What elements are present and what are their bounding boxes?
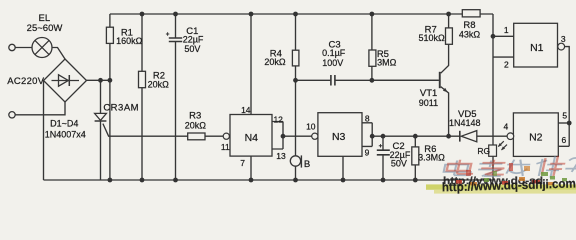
pin bubble N4 pin11 bbox=[223, 133, 229, 139]
svg-text:RG: RG bbox=[477, 146, 490, 156]
wire VD5 to N2 pin4 bbox=[477, 135, 507, 137]
junction R6 top bbox=[413, 134, 418, 139]
junction N4 pin7 bottom rail bbox=[249, 178, 254, 183]
capacitor C3 bbox=[331, 75, 335, 86]
resistor R5 bbox=[369, 50, 376, 66]
wire bottom rail bbox=[44, 179, 494, 181]
resistor R7 bbox=[446, 28, 453, 44]
transistor VT1 bbox=[439, 72, 448, 92]
wire lamp to bridge top vertex bbox=[52, 48, 65, 60]
bridge rectifier D1-D4 bbox=[44, 59, 87, 102]
svg-text:N2: N2 bbox=[529, 131, 543, 143]
svg-text:50V: 50V bbox=[184, 44, 200, 54]
wire N3 bottom pin bbox=[342, 156, 344, 180]
svg-text:9: 9 bbox=[365, 147, 370, 157]
svg-text:50V: 50V bbox=[391, 158, 407, 168]
junction C1 top rail bbox=[173, 12, 178, 17]
svg-text:9011: 9011 bbox=[419, 98, 438, 108]
photoresistor RG bbox=[489, 141, 507, 156]
wire N1 pin1 bbox=[493, 35, 515, 37]
wire R6 column bbox=[414, 136, 416, 180]
svg-text:14: 14 bbox=[241, 105, 251, 115]
wire top rail bbox=[110, 13, 493, 15]
resistor R2 bbox=[139, 71, 146, 87]
svg-text:5: 5 bbox=[562, 111, 567, 121]
thyristor CR3AM bbox=[95, 113, 107, 121]
terminal AC top bbox=[9, 44, 15, 50]
junction VT1 emitter node bbox=[446, 134, 451, 139]
svg-text:160kΩ: 160kΩ bbox=[116, 36, 143, 46]
svg-text:B: B bbox=[304, 159, 310, 170]
wire N4 pin7 bbox=[250, 156, 252, 180]
svg-text:20kΩ: 20kΩ bbox=[185, 121, 207, 131]
junction C2 top bbox=[381, 134, 386, 139]
svg-text:7: 7 bbox=[240, 158, 245, 168]
wire VT1 emitter down bbox=[441, 87, 449, 137]
junction R5 top rail bbox=[370, 12, 375, 17]
svg-text:4: 4 bbox=[504, 122, 509, 132]
svg-text:1: 1 bbox=[504, 25, 509, 35]
wire AC top terminal to lamp bbox=[15, 47, 32, 49]
wire VT1 collector to R7 bbox=[441, 14, 449, 73]
wire N1 input column bbox=[492, 14, 494, 180]
IC gate N3 bbox=[318, 113, 362, 157]
svg-text:1N4007x4: 1N4007x4 bbox=[45, 130, 86, 140]
svg-text:20kΩ: 20kΩ bbox=[264, 57, 286, 67]
wire R1 column bbox=[109, 14, 111, 180]
wire R4 B column bbox=[295, 14, 297, 180]
capacitor C1 bbox=[166, 32, 182, 41]
resistor R8 bbox=[462, 10, 480, 17]
svg-text:3: 3 bbox=[561, 34, 566, 44]
svg-text:25~60W: 25~60W bbox=[27, 23, 63, 34]
junction R1 bottom rail bbox=[108, 178, 113, 183]
junction R2 top rail bbox=[140, 12, 145, 17]
svg-text:2: 2 bbox=[504, 59, 509, 69]
junction C1 bottom rail bbox=[173, 178, 178, 183]
IC gate N2 bbox=[513, 113, 558, 156]
wire bridge right vertex to R1 column bbox=[87, 79, 110, 81]
svg-text:1N4148: 1N4148 bbox=[449, 118, 481, 128]
junction N4 pins 12 13 bbox=[281, 134, 286, 139]
wire N1 pin3 to N2 pins 5 6 bbox=[565, 47, 570, 147]
svg-text:N3: N3 bbox=[332, 131, 346, 143]
wire N4 pins 12 13 tie bracket bbox=[272, 122, 283, 150]
wire N3 pins 8 9 tie bracket bbox=[362, 123, 372, 147]
junction R6 bottom rail bbox=[413, 178, 418, 183]
svg-text:6: 6 bbox=[562, 135, 567, 145]
svg-text:N1: N1 bbox=[530, 42, 544, 54]
svg-text:N4: N4 bbox=[245, 132, 259, 144]
wire N4 output to N3 pin10 bbox=[283, 135, 312, 137]
junction R1 bridge output bbox=[108, 78, 113, 83]
IC gate N1 bbox=[514, 23, 558, 67]
wire SCR gate to R3 to N4 pin11 bbox=[103, 124, 223, 137]
wire SCR anode bbox=[100, 80, 102, 113]
svg-text:510kΩ: 510kΩ bbox=[418, 33, 445, 43]
svg-text:11: 11 bbox=[221, 142, 230, 152]
svg-text:D1~D4: D1~D4 bbox=[50, 119, 78, 129]
resistor R6 bbox=[412, 147, 419, 165]
terminal AC bottom bbox=[9, 112, 15, 118]
svg-text:8: 8 bbox=[365, 114, 370, 124]
wire SCR cathode bbox=[100, 121, 102, 180]
svg-text:AC220V: AC220V bbox=[7, 76, 45, 87]
svg-text:43kΩ: 43kΩ bbox=[459, 30, 481, 40]
junction N3 ground bottom rail bbox=[341, 178, 346, 183]
wire N2 pin5 bbox=[558, 122, 569, 124]
junction R4 top rail bbox=[293, 12, 298, 17]
svg-text:20kΩ: 20kΩ bbox=[148, 80, 170, 90]
resistor R3 bbox=[188, 133, 205, 140]
junction N2 pin5 bbox=[567, 121, 572, 126]
wire C2 column bbox=[382, 136, 384, 180]
svg-text:CR3AM: CR3AM bbox=[103, 103, 139, 114]
svg-text:3.3MΩ: 3.3MΩ bbox=[418, 153, 445, 163]
svg-text:0.1µF: 0.1µF bbox=[322, 48, 346, 58]
watermark bbox=[426, 156, 576, 195]
pin bubble N1 pin3 bbox=[558, 43, 565, 50]
lamp EL bbox=[32, 38, 52, 58]
junction R2 bottom rail bbox=[140, 178, 145, 183]
diode VD5 bbox=[460, 131, 477, 142]
svg-text:3MΩ: 3MΩ bbox=[377, 58, 397, 68]
resistor R4 bbox=[292, 50, 299, 66]
wire VT1 base bbox=[372, 79, 439, 81]
svg-text:10: 10 bbox=[306, 122, 316, 132]
wire N2 pin6 bbox=[558, 145, 569, 147]
wire N4 pin14 column bbox=[250, 14, 252, 115]
svg-text:12: 12 bbox=[273, 114, 283, 124]
wire R2 column bbox=[141, 14, 143, 180]
junction N3 pins 8 9 bbox=[370, 134, 375, 139]
wire bridge bottom vertex to AC bottom terminal bbox=[15, 102, 65, 115]
junction C2 bottom rail bbox=[381, 178, 386, 183]
junction R5 C3 node bbox=[370, 78, 375, 83]
svg-text:R3: R3 bbox=[189, 110, 201, 121]
junction R4 C3 node bbox=[293, 78, 298, 83]
capacitor C2 bbox=[377, 144, 390, 155]
junction B bottom rail bbox=[293, 178, 298, 183]
wire R5 column bbox=[371, 14, 373, 80]
svg-text:100V: 100V bbox=[322, 58, 343, 68]
pin bubble N3 pin10 bbox=[312, 133, 318, 139]
junction N4 pin14 top rail bbox=[249, 12, 254, 17]
wire N3 output to VD5 bbox=[372, 135, 459, 137]
svg-text:13: 13 bbox=[276, 151, 286, 161]
wire bridge left vertex down bbox=[43, 81, 45, 181]
wire C3 node horizontal bbox=[296, 79, 439, 81]
IC gate N4 bbox=[230, 115, 272, 157]
resistor R1 bbox=[106, 27, 113, 43]
junction SCR anode bbox=[98, 78, 103, 83]
wire N1 pin2 bbox=[493, 56, 515, 58]
wire C1 column bbox=[175, 14, 177, 38]
junction N1 pin1 bbox=[491, 34, 496, 39]
pin bubble N2 pin4 bbox=[507, 133, 514, 140]
touch plate B bbox=[290, 155, 301, 167]
junction R7 top rail bbox=[446, 12, 451, 17]
